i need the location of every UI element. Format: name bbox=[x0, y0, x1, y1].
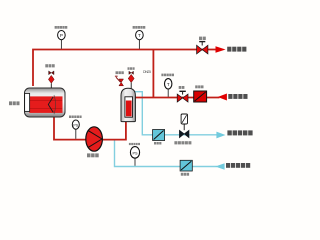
expansion tank vessel bbox=[121, 88, 135, 121]
label 排气阀 (tank) bbox=[128, 67, 135, 70]
ball valve mid (球阀) bbox=[177, 91, 188, 102]
filter cyan A (过滤器) bbox=[153, 130, 165, 141]
circulation pump 循环泵 bbox=[86, 127, 103, 151]
label 球阀 (top) bbox=[199, 37, 206, 40]
wire hot-medium return line y=97.5 bbox=[133, 97, 220, 99]
svg-text:PS: PS bbox=[73, 123, 78, 127]
arrow cooling water inlet (points left) bbox=[215, 163, 224, 170]
label 冷却水出口 bbox=[227, 130, 252, 135]
label 液位显示器 bbox=[129, 143, 140, 145]
heater vessel body bbox=[25, 88, 66, 117]
label 油压显示器 bbox=[69, 116, 82, 119]
label 过滤器 (cyan A) bbox=[154, 142, 161, 145]
filter cyan B (过滤器) bbox=[180, 160, 192, 171]
filter red (过滤器) bbox=[194, 91, 207, 102]
wire cyan tank overflow to cooling outlet line bbox=[134, 92, 218, 135]
label 冷却水入口 bbox=[226, 163, 250, 168]
wire top manifold with left drop to heater bbox=[33, 50, 216, 87]
label 稳压阀 bbox=[116, 71, 124, 74]
label 温度显示器 bbox=[133, 26, 146, 29]
temperature sensor (温度传感器) bbox=[165, 79, 172, 97]
pressure gauge P (压力显示器) bbox=[58, 30, 66, 48]
label 球阀 (mid) bbox=[179, 86, 185, 89]
label 过滤器 (red filter) bbox=[195, 85, 203, 88]
arrow hot medium outlet bbox=[216, 46, 226, 53]
arrow hot medium return (points left) bbox=[218, 94, 227, 101]
label 热媒回口 bbox=[228, 94, 247, 99]
ball valve top (球阀) bbox=[197, 42, 208, 54]
manual control valve 手动调节阀 bbox=[179, 114, 189, 138]
label 过滤器 (cyan B) bbox=[181, 173, 189, 176]
exhaust valve on tank (排气阀) bbox=[128, 71, 134, 89]
arrow cooling water outlet bbox=[216, 132, 225, 139]
oil pressure gauge (油压显示器) bbox=[72, 120, 79, 139]
label 加热器 heater bbox=[9, 101, 20, 105]
svg-text:PS: PS bbox=[132, 151, 138, 155]
wire cyan cooling inlet line with riser to pump discharge bbox=[115, 140, 218, 166]
wire heater drain / pump suction / tank fill bbox=[54, 116, 126, 140]
label 热媒出口 bbox=[227, 47, 246, 52]
svg-text:T: T bbox=[138, 33, 141, 38]
level gauge (液位显示器) bbox=[130, 147, 139, 166]
wire riser DN25 from manifold down to return line bbox=[152, 50, 154, 98]
label 手动调节阀 bbox=[174, 141, 191, 144]
pressure stabilizer valve 稳压阀 on tank bbox=[115, 76, 124, 86]
svg-text:P: P bbox=[60, 33, 63, 38]
label 压力显示器 bbox=[55, 26, 68, 29]
label 循环泵 bbox=[87, 153, 99, 157]
svg-text:T: T bbox=[167, 82, 170, 87]
temperature gauge T (温度显示器) bbox=[136, 30, 144, 48]
label 温度传感器 bbox=[161, 74, 174, 77]
exhaust valve on heater (排气阀) bbox=[48, 71, 54, 88]
svg-text:DN25: DN25 bbox=[143, 70, 151, 74]
label 排气阀 (heater) bbox=[45, 64, 54, 67]
